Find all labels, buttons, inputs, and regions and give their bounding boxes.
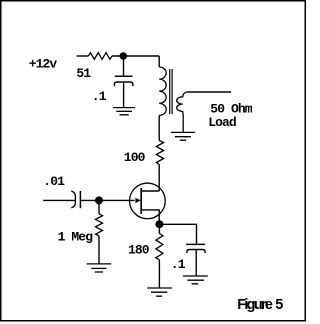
svg-text:.01: .01: [43, 174, 65, 189]
transformer T1 core: [170, 69, 172, 114]
wire 1Meg to ground: [98, 236, 100, 264]
wire +12v rail left segment: [77, 55, 89, 57]
svg-text:1 Meg: 1 Meg: [58, 229, 94, 244]
wire dot down to C1: [123, 56, 125, 76]
wire input: [43, 199, 75, 201]
capacitor C1 .1 bypass top plate: [115, 75, 133, 77]
transistor Q1 gate arrow: [135, 198, 140, 203]
transistor Q1 circle: [130, 183, 166, 219]
svg-text:Load: Load: [208, 115, 236, 130]
capacitor C3 curved plate: [187, 250, 205, 254]
svg-text:100: 100: [124, 150, 146, 165]
wire C2 to gate node: [80, 199, 134, 201]
ground G2 transformer: [171, 132, 195, 140]
node dot junction V+: [120, 52, 128, 60]
capacitor C2 .01 curved plate: [71, 191, 75, 208]
transistor Q1 source lead: [141, 210, 159, 224]
transformer T1 secondary winding: [177, 92, 188, 132]
wire source node down to R180: [158, 224, 160, 233]
svg-text:51: 51: [76, 66, 91, 81]
ground G3: [87, 264, 112, 272]
resistor R 1Meg: [96, 214, 103, 236]
wire source node to C3: [159, 224, 196, 243]
svg-text:180: 180: [128, 242, 150, 257]
wire R100 to drain: [158, 165, 160, 192]
transformer T1 primary winding: [159, 67, 166, 115]
ground G4: [183, 276, 208, 284]
wire gate node down to R 1Meg: [98, 200, 100, 213]
svg-text:+12v: +12v: [29, 56, 58, 71]
capacitor C1 curved plate: [114, 82, 132, 86]
resistor R100: [156, 141, 163, 165]
wire C1 to ground: [123, 82, 125, 108]
capacitor C2 straight plate: [79, 191, 81, 208]
node dot source: [155, 220, 163, 228]
svg-text:.1: .1: [171, 257, 186, 272]
wire R180 to ground: [158, 260, 160, 288]
wire C3 to ground: [195, 250, 197, 277]
svg-text:.1: .1: [92, 89, 107, 104]
ground G1: [113, 108, 135, 115]
wire corner down to primary: [158, 56, 160, 67]
node dot gate: [95, 196, 103, 204]
resistor R180: [156, 234, 163, 260]
resistor R51: [88, 53, 112, 60]
wire primary bottom to R100: [158, 115, 160, 140]
transistor Q1 drain lead: [141, 190, 159, 192]
svg-text:Figure 5: Figure 5: [237, 297, 283, 313]
wire secondary to load: [188, 91, 232, 93]
transistor Q1 gate bar: [140, 188, 142, 214]
ground G5: [147, 288, 172, 296]
capacitor C3 .1 top plate: [186, 243, 205, 245]
wire rail to corner: [112, 55, 159, 57]
